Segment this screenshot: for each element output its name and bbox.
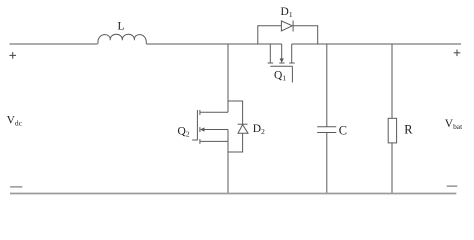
svg-text:Q1: Q1: [274, 70, 286, 83]
svg-text:C: C: [339, 124, 347, 138]
svg-text:D2: D2: [253, 123, 265, 136]
transistor Q1 drain lead: [291, 44, 293, 63]
transistor Q2 source lead: [200, 140, 228, 142]
diode D1 right lead wire: [293, 26, 318, 44]
diode D1 cathode bar: [292, 21, 294, 32]
wire D2 bottom branch: [228, 133, 243, 152]
transistor Q2 source channel bar: [199, 139, 201, 144]
wire resistor to bottom rail: [391, 143, 393, 194]
svg-text:Vdc: Vdc: [7, 115, 23, 128]
svg-text:L: L: [118, 21, 125, 33]
transistor Q2 body arrow: [200, 127, 205, 131]
diode D1 triangle: [281, 21, 292, 31]
wire bottom rail: [10, 193, 456, 195]
resistor R body: [388, 118, 396, 143]
plus sign output: [454, 50, 461, 57]
wire top left segment (input + to inductor): [10, 43, 98, 45]
wire D2 top branch: [228, 101, 243, 124]
transistor Q2 body channel bar: [199, 127, 201, 132]
svg-text:D1: D1: [281, 6, 293, 19]
transistor Q1 source channel bar: [268, 62, 274, 64]
transistor Q1 gate bar: [270, 65, 292, 67]
transistor Q1 source lead: [269, 44, 271, 63]
svg-text:Q2: Q2: [178, 126, 190, 139]
wire inductor to Q1 source node: [146, 43, 281, 45]
transistor Q1 gate lead: [291, 66, 293, 82]
transistor Q2 gate lead: [192, 139, 197, 141]
transistor Q1 drain channel bar: [289, 62, 295, 64]
svg-text:R: R: [404, 123, 413, 137]
transistor Q2 gate bar: [196, 110, 198, 140]
transistor Q2 drain channel bar: [199, 110, 201, 115]
diode D2 cathode bar: [238, 123, 248, 125]
plus sign input: [9, 52, 16, 59]
capacitor C top plate: [317, 126, 336, 128]
diode D2 triangle: [238, 125, 248, 134]
transistor Q1 body lead: [281, 44, 283, 59]
inductor L: [98, 34, 146, 44]
transistor Q2 body lead with arrow: [204, 129, 229, 131]
wire output node down to resistor: [391, 44, 393, 118]
wire Q2 source down to bottom rail: [227, 130, 229, 194]
wire node A down to Q2 drain: [227, 44, 229, 112]
transistor Q2 drain lead: [200, 111, 228, 113]
transistor Q1 body channel bar: [279, 62, 284, 64]
minus sign output: [447, 185, 458, 187]
diode D1 left lead wire: [258, 26, 282, 44]
wire capacitor to bottom rail: [326, 133, 328, 194]
capacitor C bottom plate: [317, 132, 336, 134]
minus sign input: [10, 186, 22, 188]
transistor Q1 body arrow: [280, 58, 284, 63]
wire top right segment (Q1 drain to output +): [292, 43, 461, 45]
svg-text:Vbat: Vbat: [445, 118, 463, 131]
wire output node down to capacitor: [326, 44, 328, 127]
